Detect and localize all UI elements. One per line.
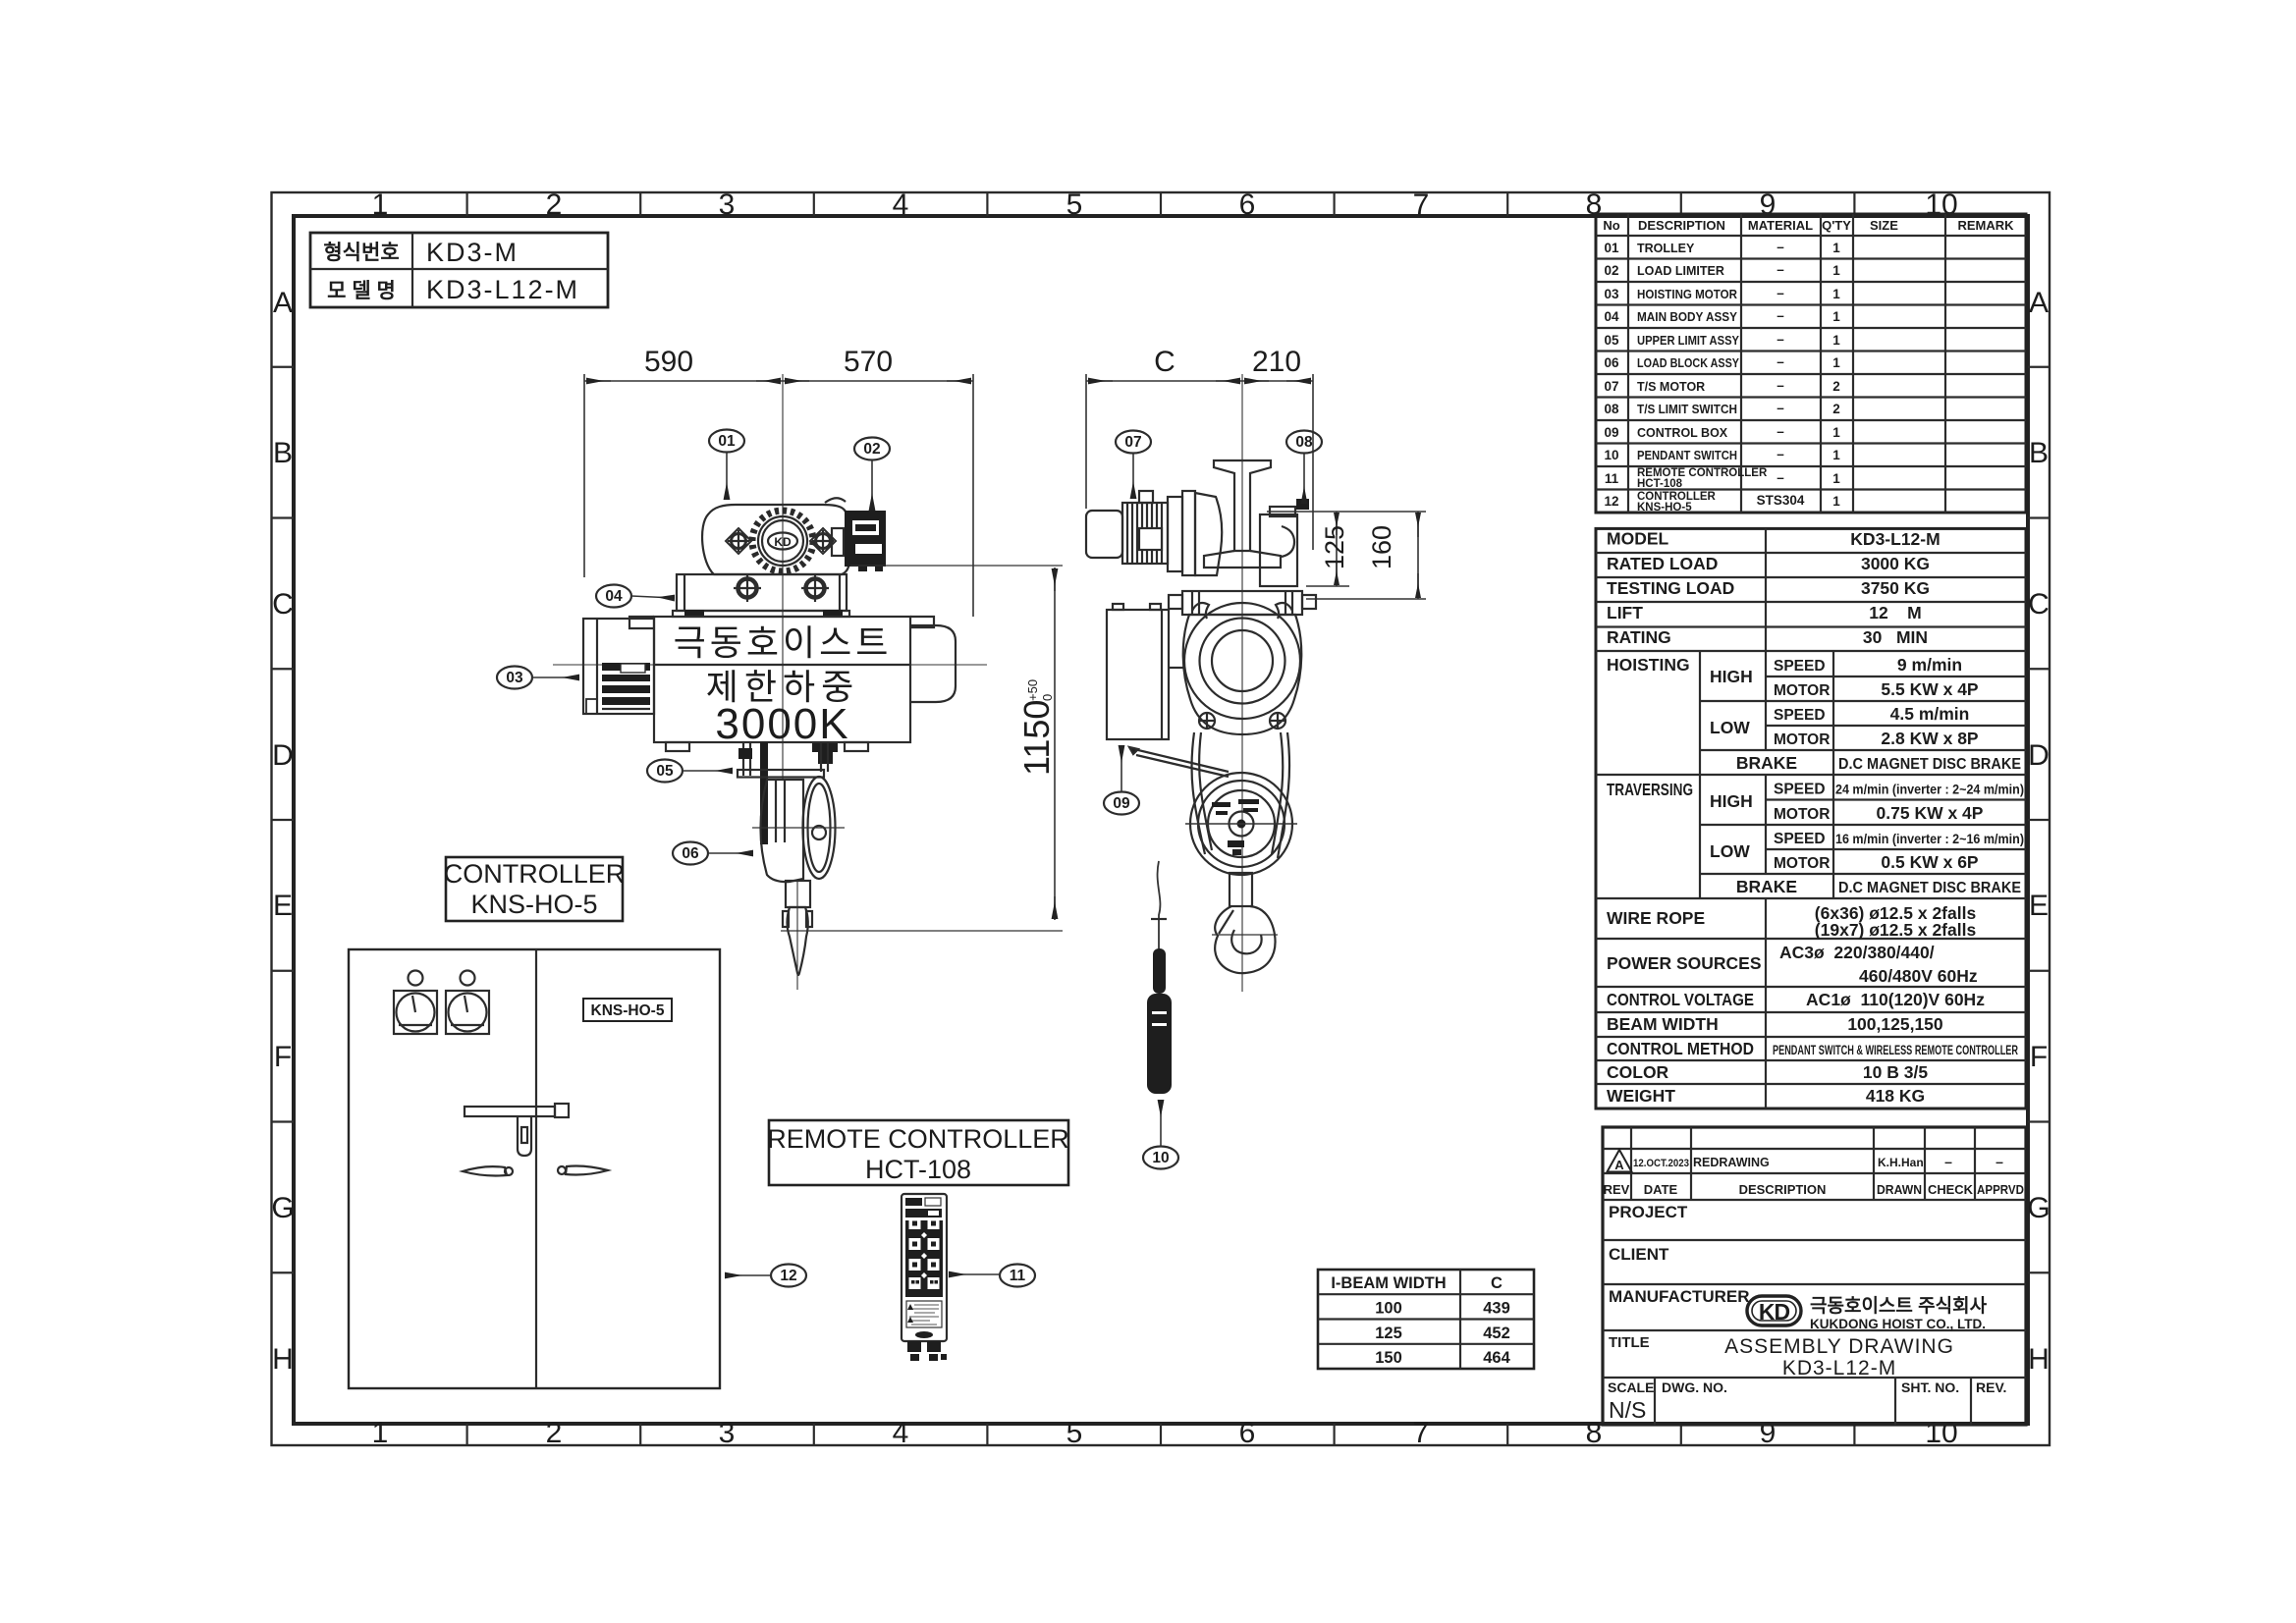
svg-text:SIZE: SIZE <box>1870 218 1898 233</box>
svg-text:Q'TY: Q'TY <box>1822 218 1851 233</box>
svg-text:REV.: REV. <box>1976 1380 2006 1395</box>
svg-text:6: 6 <box>1239 1417 1256 1449</box>
svg-text:11: 11 <box>1010 1268 1026 1284</box>
svg-text:SPEED: SPEED <box>1774 658 1826 675</box>
svg-text:REDRAWING: REDRAWING <box>1693 1156 1770 1169</box>
svg-text:1: 1 <box>1832 494 1840 509</box>
svg-text:CONTROL METHOD: CONTROL METHOD <box>1607 1039 1754 1058</box>
svg-text:CONTROL VOLTAGE: CONTROL VOLTAGE <box>1607 990 1754 1009</box>
svg-text:07: 07 <box>1604 379 1618 394</box>
svg-text:–: – <box>1777 401 1784 415</box>
svg-text:7: 7 <box>1413 189 1430 221</box>
svg-text:PROJECT: PROJECT <box>1609 1203 1688 1221</box>
svg-text:K.H.Han: K.H.Han <box>1878 1156 1924 1169</box>
svg-text:CONTROLLER: CONTROLLER <box>444 859 626 889</box>
svg-text:12 M: 12 M <box>1869 603 1922 622</box>
svg-text:1: 1 <box>1832 333 1840 348</box>
svg-text:MODEL: MODEL <box>1607 529 1669 549</box>
svg-text:–: – <box>1777 262 1784 277</box>
svg-text:9 m/min: 9 m/min <box>1897 655 1962 675</box>
svg-text:2.8 KW x 8P: 2.8 KW x 8P <box>1881 729 1979 748</box>
svg-text:WEIGHT: WEIGHT <box>1607 1086 1675 1106</box>
svg-text:SPEED: SPEED <box>1774 831 1826 847</box>
svg-text:1: 1 <box>1832 241 1840 255</box>
svg-text:MAIN BODY ASSY: MAIN BODY ASSY <box>1637 310 1738 324</box>
svg-text:A: A <box>2029 287 2049 319</box>
svg-text:–: – <box>1777 332 1784 347</box>
svg-text:형식번호: 형식번호 <box>323 241 399 264</box>
svg-text:RATED LOAD: RATED LOAD <box>1607 554 1718 573</box>
svg-text:ASSEMBLY DRAWING: ASSEMBLY DRAWING <box>1724 1335 1954 1358</box>
svg-text:03: 03 <box>506 670 523 686</box>
svg-text:DESCRIPTION: DESCRIPTION <box>1739 1182 1827 1197</box>
svg-text:MOTOR: MOTOR <box>1774 855 1830 872</box>
svg-text:UPPER LIMIT ASSY: UPPER LIMIT ASSY <box>1637 334 1740 348</box>
svg-text:POWER SOURCES: POWER SOURCES <box>1607 953 1762 973</box>
svg-text:1: 1 <box>1832 425 1840 440</box>
svg-text:MOTOR: MOTOR <box>1774 682 1830 699</box>
svg-text:1: 1 <box>1832 287 1840 301</box>
svg-text:10: 10 <box>1925 189 1957 221</box>
svg-text:AC1ø 110(120)V 60Hz: AC1ø 110(120)V 60Hz <box>1806 990 1985 1009</box>
svg-text:LOW: LOW <box>1710 841 1750 861</box>
svg-text:HOISTING: HOISTING <box>1607 655 1690 675</box>
svg-text:150: 150 <box>1375 1349 1402 1367</box>
svg-text:HCT-108: HCT-108 <box>1637 478 1683 490</box>
svg-text:12: 12 <box>780 1268 796 1284</box>
svg-text:1: 1 <box>1832 471 1840 486</box>
svg-text:418 KG: 418 KG <box>1866 1086 1925 1106</box>
svg-text:CONTROL BOX: CONTROL BOX <box>1637 426 1728 440</box>
svg-text:+50: +50 <box>1025 679 1040 701</box>
svg-text:DRAWN: DRAWN <box>1877 1182 1922 1197</box>
svg-text:KNS-HO-5: KNS-HO-5 <box>470 890 597 919</box>
svg-text:452: 452 <box>1483 1325 1510 1342</box>
svg-text:KD3-L12-M: KD3-L12-M <box>426 275 579 304</box>
svg-text:APPRVD: APPRVD <box>1977 1182 2024 1197</box>
svg-text:극동호이스트 주식회사: 극동호이스트 주식회사 <box>1810 1295 1988 1317</box>
svg-text:1: 1 <box>372 1417 389 1449</box>
svg-text:2: 2 <box>1832 402 1840 416</box>
svg-text:2: 2 <box>546 1417 563 1449</box>
svg-text:04: 04 <box>1604 309 1619 324</box>
svg-text:05: 05 <box>1604 333 1619 348</box>
svg-text:DATE: DATE <box>1644 1182 1678 1197</box>
svg-text:TESTING LOAD: TESTING LOAD <box>1607 578 1734 598</box>
svg-text:KD3-M: KD3-M <box>426 238 519 267</box>
svg-text:MOTOR: MOTOR <box>1774 731 1830 748</box>
svg-text:3: 3 <box>719 189 736 221</box>
svg-text:A: A <box>273 287 293 319</box>
svg-text:HCT-108: HCT-108 <box>865 1155 971 1184</box>
svg-text:125: 125 <box>1320 525 1349 569</box>
svg-text:TROLLEY: TROLLEY <box>1637 242 1695 255</box>
svg-text:07: 07 <box>1124 434 1141 451</box>
svg-text:439: 439 <box>1483 1300 1510 1318</box>
svg-text:KNS-HO-5: KNS-HO-5 <box>1637 502 1692 514</box>
svg-text:100,125,150: 100,125,150 <box>1847 1014 1943 1034</box>
svg-text:–: – <box>1995 1154 2003 1169</box>
svg-text:03: 03 <box>1604 287 1619 301</box>
svg-text:02: 02 <box>863 441 880 458</box>
svg-text:PENDANT SWITCH & WIRELESS REMO: PENDANT SWITCH & WIRELESS REMOTE CONTROL… <box>1773 1043 2018 1057</box>
svg-text:4: 4 <box>893 189 909 221</box>
svg-text:3: 3 <box>719 1417 736 1449</box>
svg-text:3750 KG: 3750 KG <box>1861 578 1930 598</box>
svg-text:0.75 KW x 4P: 0.75 KW x 4P <box>1877 803 1984 823</box>
svg-text:11: 11 <box>1605 471 1619 486</box>
svg-text:KUKDONG HOIST CO., LTD.: KUKDONG HOIST CO., LTD. <box>1810 1317 1986 1331</box>
svg-text:10: 10 <box>1925 1417 1957 1449</box>
svg-text:(19x7) ø12.5 x 2falls: (19x7) ø12.5 x 2falls <box>1815 920 1977 940</box>
svg-text:06: 06 <box>682 845 699 862</box>
svg-text:7: 7 <box>1413 1417 1430 1449</box>
svg-text:2: 2 <box>1832 379 1840 394</box>
svg-text:HIGH: HIGH <box>1710 791 1753 811</box>
svg-text:09: 09 <box>1113 795 1130 812</box>
svg-text:KD3-L12-M: KD3-L12-M <box>1850 529 1940 549</box>
svg-text:0.5 KW x 6P: 0.5 KW x 6P <box>1881 852 1979 872</box>
svg-text:COLOR: COLOR <box>1607 1062 1669 1082</box>
svg-text:LOAD LIMITER: LOAD LIMITER <box>1637 264 1724 278</box>
svg-text:1: 1 <box>1832 448 1840 462</box>
svg-text:B: B <box>273 437 293 469</box>
svg-text:0: 0 <box>1040 694 1055 701</box>
svg-text:BEAM WIDTH: BEAM WIDTH <box>1607 1014 1719 1034</box>
svg-text:–: – <box>1777 286 1784 300</box>
svg-text:REMARK: REMARK <box>1957 218 2014 233</box>
svg-text:SPEED: SPEED <box>1774 707 1826 724</box>
svg-text:590: 590 <box>644 346 693 378</box>
svg-text:160: 160 <box>1367 525 1396 569</box>
svg-text:H: H <box>2028 1343 2050 1376</box>
svg-text:3000 KG: 3000 KG <box>1861 554 1930 573</box>
svg-text:G: G <box>271 1192 294 1224</box>
svg-text:STS304: STS304 <box>1757 493 1805 508</box>
svg-text:3000K: 3000K <box>715 700 849 748</box>
svg-text:C: C <box>1491 1274 1503 1292</box>
svg-text:B: B <box>2029 437 2049 469</box>
svg-text:–: – <box>1777 447 1784 461</box>
svg-text:9: 9 <box>1760 1417 1777 1449</box>
svg-text:570: 570 <box>844 346 893 378</box>
svg-text:10: 10 <box>1152 1150 1169 1166</box>
svg-text:MANUFACTURER: MANUFACTURER <box>1609 1287 1750 1306</box>
svg-text:CLIENT: CLIENT <box>1609 1245 1669 1264</box>
svg-text:2: 2 <box>546 189 563 221</box>
svg-text:100: 100 <box>1375 1300 1402 1318</box>
svg-text:E: E <box>273 890 293 922</box>
svg-text:1: 1 <box>1832 309 1840 324</box>
svg-text:KD: KD <box>774 535 792 549</box>
svg-text:LIFT: LIFT <box>1607 603 1643 622</box>
svg-text:D: D <box>272 739 294 772</box>
svg-text:10 B 3/5: 10 B 3/5 <box>1863 1062 1928 1082</box>
svg-text:MOTOR: MOTOR <box>1774 806 1830 823</box>
svg-text:RATING: RATING <box>1607 627 1671 647</box>
svg-text:9: 9 <box>1760 189 1777 221</box>
svg-text:BRAKE: BRAKE <box>1736 877 1797 896</box>
svg-text:WIRE ROPE: WIRE ROPE <box>1607 908 1705 928</box>
svg-text:8: 8 <box>1586 1417 1603 1449</box>
svg-text:–: – <box>1777 424 1784 439</box>
svg-text:DESCRIPTION: DESCRIPTION <box>1638 218 1725 233</box>
svg-text:–: – <box>1777 308 1784 323</box>
svg-text:4: 4 <box>893 1417 909 1449</box>
svg-text:G: G <box>2027 1192 2050 1224</box>
svg-text:24 m/min (inverter : 2~24 m/mi: 24 m/min (inverter : 2~24 m/min) <box>1835 782 2024 797</box>
svg-text:210: 210 <box>1252 346 1301 378</box>
svg-text:125: 125 <box>1375 1325 1402 1342</box>
svg-text:30 MIN: 30 MIN <box>1863 627 1928 647</box>
svg-text:5: 5 <box>1066 189 1083 221</box>
svg-text:T/S MOTOR: T/S MOTOR <box>1637 380 1705 394</box>
svg-text:KD: KD <box>1759 1299 1790 1325</box>
svg-text:C: C <box>2028 588 2050 621</box>
svg-text:SCALE: SCALE <box>1608 1380 1654 1395</box>
svg-text:06: 06 <box>1604 355 1619 370</box>
svg-text:16 m/min (inverter : 2~16 m/mi: 16 m/min (inverter : 2~16 m/min) <box>1835 831 2024 846</box>
svg-text:T/S LIMIT SWITCH: T/S LIMIT SWITCH <box>1637 403 1737 416</box>
svg-text:D.C MAGNET DISC BRAKE: D.C MAGNET DISC BRAKE <box>1838 880 2021 896</box>
svg-text:12.OCT.2023: 12.OCT.2023 <box>1633 1158 1689 1169</box>
svg-text:08: 08 <box>1295 434 1313 451</box>
svg-text:SPEED: SPEED <box>1774 782 1826 798</box>
svg-text:SHT. NO.: SHT. NO. <box>1901 1380 1959 1395</box>
svg-text:모 델 명: 모 델 명 <box>327 280 396 302</box>
svg-text:AC3ø 220/380/440/: AC3ø 220/380/440/ <box>1779 943 1935 962</box>
svg-text:4.5 m/min: 4.5 m/min <box>1890 704 1970 724</box>
svg-text:KNS-HO-5: KNS-HO-5 <box>591 1002 665 1019</box>
svg-text:F: F <box>2030 1041 2048 1073</box>
svg-text:F: F <box>274 1041 292 1073</box>
svg-text:C: C <box>272 588 294 621</box>
svg-text:6: 6 <box>1239 189 1256 221</box>
svg-text:LOAD BLOCK ASSY: LOAD BLOCK ASSY <box>1637 356 1740 370</box>
svg-text:8: 8 <box>1586 189 1603 221</box>
svg-text:A: A <box>1614 1158 1624 1172</box>
svg-text:CHECK: CHECK <box>1928 1182 1974 1197</box>
svg-text:DWG. NO.: DWG. NO. <box>1662 1380 1727 1395</box>
svg-text:–: – <box>1777 240 1784 254</box>
svg-text:1150: 1150 <box>1016 700 1057 776</box>
svg-text:–: – <box>1944 1154 1952 1169</box>
svg-text:08: 08 <box>1604 402 1619 416</box>
svg-text:09: 09 <box>1604 425 1618 440</box>
svg-text:5.5 KW x 4P: 5.5 KW x 4P <box>1881 679 1979 699</box>
svg-text:MATERIAL: MATERIAL <box>1748 218 1813 233</box>
svg-text:D: D <box>2028 739 2050 772</box>
svg-text:01: 01 <box>718 433 736 450</box>
svg-text:N/S: N/S <box>1609 1397 1646 1423</box>
svg-text:464: 464 <box>1483 1349 1510 1367</box>
svg-text:HIGH: HIGH <box>1710 667 1753 686</box>
svg-text:BRAKE: BRAKE <box>1736 753 1797 773</box>
svg-text:TITLE: TITLE <box>1609 1334 1650 1351</box>
svg-text:TRAVERSING: TRAVERSING <box>1607 780 1693 799</box>
svg-text:REV: REV <box>1604 1182 1630 1197</box>
svg-text:01: 01 <box>1604 241 1619 255</box>
svg-text:1: 1 <box>1832 355 1840 370</box>
svg-text:05: 05 <box>656 763 674 780</box>
svg-text:REMOTE CONTROLLER: REMOTE CONTROLLER <box>767 1124 1069 1154</box>
svg-text:–: – <box>1777 378 1784 393</box>
svg-text:E: E <box>2029 890 2049 922</box>
svg-text:극동호이스트: 극동호이스트 <box>674 622 893 663</box>
svg-text:LOW: LOW <box>1710 718 1750 737</box>
svg-text:I-BEAM WIDTH: I-BEAM WIDTH <box>1331 1274 1446 1292</box>
svg-text:D.C MAGNET DISC BRAKE: D.C MAGNET DISC BRAKE <box>1838 756 2021 773</box>
svg-text:460/480V 60Hz: 460/480V 60Hz <box>1859 966 1978 986</box>
svg-text:1: 1 <box>1832 263 1840 278</box>
svg-text:PENDANT SWITCH: PENDANT SWITCH <box>1637 449 1737 462</box>
svg-text:5: 5 <box>1066 1417 1083 1449</box>
svg-text:–: – <box>1777 354 1784 369</box>
svg-text:HOISTING MOTOR: HOISTING MOTOR <box>1637 288 1737 301</box>
svg-text:C: C <box>1154 346 1175 378</box>
svg-text:04: 04 <box>605 588 623 605</box>
svg-text:KD3-L12-M: KD3-L12-M <box>1782 1357 1896 1380</box>
svg-text:02: 02 <box>1604 263 1618 278</box>
svg-text:No: No <box>1603 218 1619 233</box>
svg-text:–: – <box>1777 470 1784 485</box>
svg-text:10: 10 <box>1604 448 1618 462</box>
svg-text:H: H <box>272 1343 294 1376</box>
svg-text:12: 12 <box>1604 494 1618 509</box>
svg-text:1: 1 <box>372 189 389 221</box>
